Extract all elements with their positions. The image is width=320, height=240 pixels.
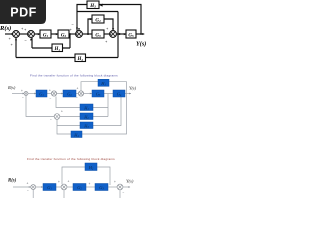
junction dot sum3 top [76,27,78,29]
svg-text:−: − [27,189,29,193]
summing junction S2 (diag1) [28,31,35,38]
svg-text:Find the transfer function of: Find the transfer function of the follow… [27,157,115,161]
wire top loop left segment into sum3 top [77,5,87,32]
svg-text:+: + [11,42,14,47]
block H3 (diag2 stack) [80,122,93,129]
wire top loop H3: tap after G5 up, through H3, down into sum3 [100,5,142,35]
wire G1 to sum2 (diag3) [56,186,61,188]
svg-text:Y(s): Y(s) [136,40,146,47]
wire G2 to sum3 [69,33,75,35]
svg-text:+: + [9,36,12,41]
wire G3 to sum3 (diag3) [108,186,117,188]
block G2 (diag1) [58,30,69,39]
wire riser x121 G4-bottom to H3 row [93,97,121,126]
junction dot x141 [140,33,142,35]
sign marks diag3 [27,180,125,196]
summing junction sF (diag2) [54,114,60,120]
svg-text:−: − [25,38,28,43]
wire H2 loop right riser [117,34,119,58]
svg-text:Y(s): Y(s) [126,179,134,184]
wire H1 row [32,47,70,49]
summing junction t3 (diag3) [117,184,123,190]
svg-text:H3: H3 [89,4,96,9]
wire H3 row left into sumF riser [57,125,80,127]
wire G4 output to sum4 top [104,19,113,30]
svg-text:G3: G3 [95,34,101,39]
wire H4 row right to riser x127 [82,94,127,135]
wire sum3 to G3 with junction to G4 [83,33,92,35]
svg-text:+: + [61,110,63,114]
block G3 (diag3) [95,184,108,191]
svg-text:−: − [50,97,52,101]
block G2 (diag3) [73,184,86,191]
wire sum3 to G3 (diag2) [84,93,93,95]
PDF badge [0,0,46,24]
block G4 (diag1 upper parallel) [92,15,104,24]
block G1 (diag3) [43,184,56,191]
svg-text:R(s): R(s) [8,179,17,184]
block H2 (diag2 stack) [80,113,93,120]
summing junction s3 (diag2) [78,91,83,96]
wire G2 to G3 (diag3) [86,186,95,188]
block G3 (diag2) [92,90,104,97]
wire sum4 to G5 [117,33,126,35]
wire riser x108 from main down to H2 row [107,94,109,117]
wire H2 row [16,57,118,59]
svg-text:H1: H1 [53,47,60,52]
svg-text:G1: G1 [43,34,49,39]
wire main line R(s) to sum1 [5,33,12,35]
block H2 (diag1) [75,54,86,62]
block H4 (diag2 bottom) [71,131,82,138]
summing junction S4 (diag1) [110,31,117,38]
svg-text:G5: G5 [128,34,134,39]
junction dot x118 [119,33,121,35]
wire G4 to output (diag2) [125,93,131,95]
junction dot H1 tap [69,33,71,35]
block H3 (diag1 top loop) [87,1,99,9]
svg-text:−: − [50,118,52,122]
summing junction s2 (diag2) [51,91,56,96]
wire top path right segment riser x110 [97,167,110,185]
svg-text:G4: G4 [95,19,101,24]
svg-text:+: + [106,26,109,31]
wire sum3 to Y (diag3) [123,186,130,188]
wire sumF bottom riser down to H4 row [57,119,71,134]
wire H1 loop left riser into sum2 bottom [31,38,33,48]
wire sum1 to G1 (diag3) [36,186,43,188]
svg-text:+: + [89,182,91,186]
wire bottom stub under sum2 [63,190,65,198]
wire G2 to sum3 (diag2) [76,93,79,95]
block H1 (diag1) [52,44,63,52]
sign marks diag1 [9,22,110,48]
svg-text:+: + [114,180,116,184]
wire G1 to G2 [51,33,58,35]
svg-text:−: − [72,22,75,27]
wire sum2 to G1 [35,33,40,35]
wire G3 to sum4 [104,33,109,35]
summing junction S1 (diag1) [13,31,20,38]
block G1 (diag2) [36,90,47,97]
wire G5 to Y(s) output [136,33,143,35]
svg-text:+: + [27,182,29,186]
wire sum2 to G2 (diag3) [67,186,73,188]
sign marks diag2 [21,87,79,122]
block G5 (diag1) [126,30,136,39]
arrowheads diag2/3 small [23,93,132,188]
block G3 (diag1) [92,30,104,39]
svg-text:−: − [76,96,78,100]
block G4 (diag2) [113,90,125,97]
svg-text:Y(s): Y(s) [129,86,137,91]
svg-text:+: + [77,87,79,91]
svg-text:R(s): R(s) [7,85,16,90]
svg-text:+: + [24,27,27,32]
svg-text:+: + [58,180,60,184]
junction dot G4 branch [87,33,89,35]
wire R to sum1 (diag2) [12,93,24,95]
summing junction s1 (diag2) [24,92,28,96]
block H1 (diag2 stack) [80,104,93,111]
wire inner top loop from x118 tap [78,11,119,13]
wire H1 loop right riser (tap between G2 and sum3) [69,34,71,48]
wire H1 row (diag2) [56,97,108,108]
svg-text:G2: G2 [61,34,67,39]
wire bottom stub under sum1 [32,190,34,198]
svg-text:R(s): R(s) [0,25,11,32]
svg-text:+: + [70,27,73,32]
wire sumF output left to sum1 riser [26,96,55,117]
svg-text:+: + [49,89,51,93]
svg-text:+: + [68,180,70,184]
wire bottom stub under sum3 [119,190,121,198]
wire inner top loop riser [117,12,119,35]
svg-text:H2: H2 [76,57,83,62]
wire H2 loop left riser into sum1 bottom [15,38,17,58]
svg-text:−: − [123,191,125,195]
wire R to sum1 (diag3) [13,186,31,188]
wire sum1 to sum2 [19,33,27,35]
wire G3 to G4 (diag2) [104,93,113,95]
block H2 (diag3 top) [85,163,97,171]
wire G4 branch riser [88,19,92,34]
svg-text:−: − [22,96,24,100]
svg-text:Find the transfer function of: Find the transfer function of the follow… [30,74,118,78]
wire G1 to sum2 (diag2) [47,93,52,95]
svg-text:+: + [105,39,108,44]
wire top path takeoff riser x62 [62,167,85,184]
summing junction S3 (diag1) [76,31,83,38]
block G1 (diag1) [40,30,51,39]
arrowheads diag1 [10,4,145,59]
svg-text:PDF: PDF [10,5,37,19]
wire top loop: tap at x126 up through H1t into sum3 top [109,82,127,94]
block H1t (diag2 top loop) [98,79,109,86]
summing junction t1 (diag3) [31,185,36,190]
summing junction t2 (diag3) [61,184,67,190]
wire sum2 to G2 (diag2) [57,93,64,95]
block G2 (diag2) [63,90,76,97]
wire H2 row (diag2) [60,116,109,118]
svg-text:+: + [21,89,23,93]
wire sum1 to G1 (diag2) [28,93,36,95]
